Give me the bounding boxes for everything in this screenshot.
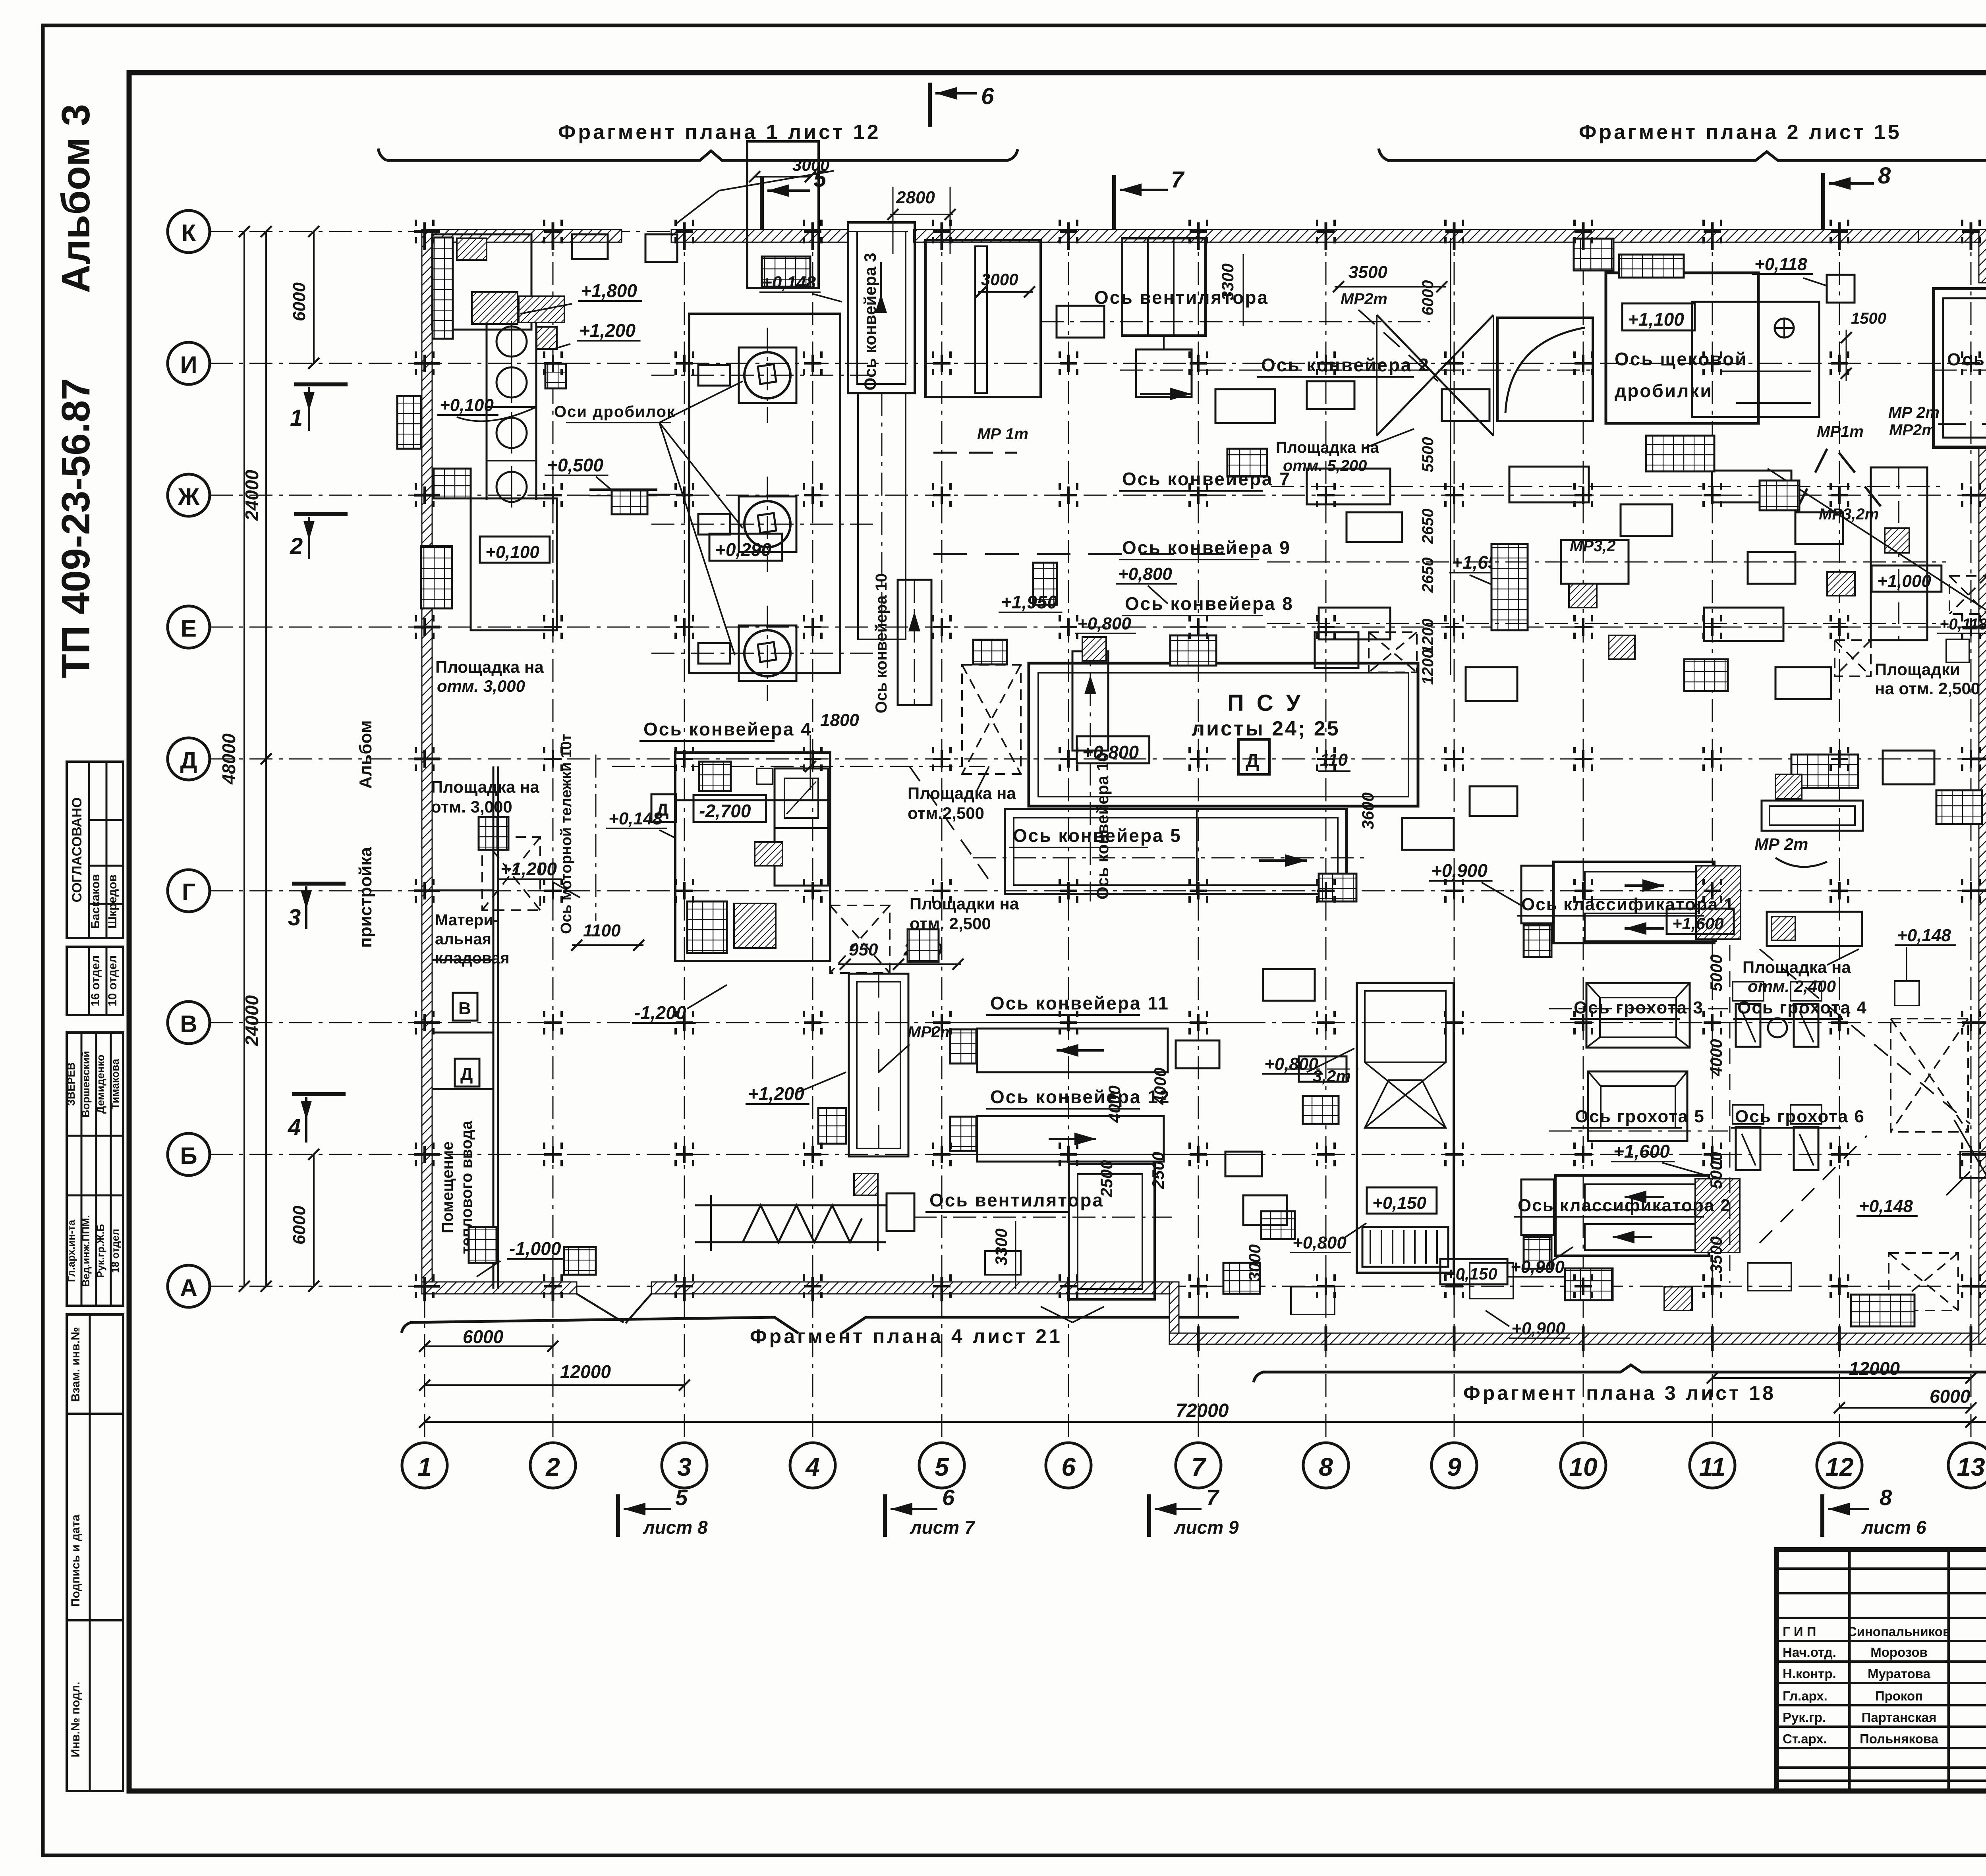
hatched pad (1569, 584, 1597, 608)
axis Е (210, 627, 1986, 628)
axis bubble И (168, 342, 210, 384)
column marks (416, 220, 433, 243)
svg-text:24000: 24000 (241, 995, 262, 1046)
bottom wall left part (422, 1282, 577, 1294)
svg-text:+1,200: +1,200 (748, 1083, 804, 1104)
svg-text:Рук.гр.: Рук.гр. (1783, 1710, 1826, 1725)
svg-text:Рук.гр.Ж.Б: Рук.гр.Ж.Б (95, 1224, 106, 1278)
col stub right Г (1971, 890, 1986, 892)
svg-text:Площадка на: Площадка на (908, 784, 1016, 803)
axis Д (210, 759, 1986, 760)
svg-text:3: 3 (677, 1453, 692, 1481)
col stub top 9 (1453, 222, 1456, 250)
svg-text:Оси дробилок: Оси дробилок (554, 403, 676, 421)
drum (496, 418, 527, 448)
right wall upper stub (1979, 230, 1986, 283)
svg-text:4: 4 (805, 1453, 820, 1481)
elevation mark (1667, 909, 1734, 934)
svg-text:+0,900: +0,900 (1511, 1257, 1565, 1277)
svg-text:Н.контр.: Н.контр. (1783, 1666, 1836, 1681)
svg-text:Партанская: Партанская (1862, 1710, 1937, 1725)
svg-text:6000: 6000 (290, 1206, 309, 1245)
col stub top 11 (1711, 222, 1714, 250)
axis bubble Г (168, 870, 210, 912)
svg-text:+0,148: +0,148 (609, 809, 663, 828)
svg-text:Площадка на: Площадка на (431, 778, 539, 796)
stair grid (421, 546, 452, 608)
svg-text:лист 6: лист 6 (1861, 1517, 1926, 1538)
hatched pad (1885, 528, 1909, 553)
elevation mark (1872, 566, 1942, 592)
svg-text:5: 5 (675, 1485, 688, 1510)
machine (1319, 608, 1390, 639)
col stub top 8 (1325, 222, 1327, 250)
big unit right of conveyor2 (1497, 318, 1593, 421)
svg-text:МР1т: МР1т (1817, 423, 1864, 440)
axis bubble 12 (1817, 1443, 1862, 1488)
crusher rotor (744, 630, 790, 676)
svg-text:дробилки: дробилки (1615, 380, 1713, 401)
svg-text:2500: 2500 (1149, 1152, 1167, 1189)
svg-text:Гл.арх.: Гл.арх. (1783, 1689, 1828, 1703)
svg-text:Ось грохота 6: Ось грохота 6 (1735, 1107, 1865, 1126)
bottom marker 8 лист 6 (1820, 1494, 1824, 1537)
svg-text:7: 7 (1171, 167, 1185, 193)
col stub top 5 (941, 222, 943, 250)
svg-text:+0,148: +0,148 (1859, 1197, 1913, 1216)
stair grid (612, 490, 647, 514)
svg-text:Фрагмент плана 4 лист 21: Фрагмент плана 4 лист 21 (750, 1325, 1063, 1347)
svg-text:Ось классификатора 2: Ось классификатора 2 (1518, 1196, 1731, 1215)
left wall (422, 230, 432, 1291)
svg-text:Фрагмент плана 2 лист 15: Фрагмент плана 2 лист 15 (1579, 121, 1902, 144)
svg-text:+0,150: +0,150 (1372, 1193, 1426, 1213)
svg-text:Ось конвейера 4: Ось конвейера 4 (643, 719, 812, 739)
svg-text:-1,200: -1,200 (634, 1002, 686, 1023)
svg-text:Е: Е (181, 615, 197, 642)
platform with X (1369, 632, 1417, 672)
elevation mark (480, 537, 550, 563)
svg-text:12000: 12000 (560, 1361, 611, 1382)
axis bubble 10 (1561, 1443, 1606, 1488)
top wall (423, 230, 622, 242)
long dashed handrail row Ж (933, 553, 1243, 555)
axis 7 (1198, 222, 1199, 1443)
col stub bottom 4 (811, 1277, 814, 1301)
грохот 6 (две секции) (1736, 1127, 1760, 1170)
col stub bottom 2 (552, 1277, 554, 1301)
platform with X (962, 665, 1021, 774)
stair grid (1574, 239, 1613, 270)
col stub top 7 (1197, 222, 1200, 250)
svg-text:4: 4 (288, 1114, 301, 1140)
stair grid (1227, 449, 1267, 477)
corner room (432, 234, 531, 330)
stair grid (950, 1029, 976, 1063)
right wall below gallery (1979, 447, 1986, 1344)
svg-text:кладовая: кладовая (435, 950, 510, 967)
hatched pad (1082, 637, 1106, 661)
hatched pad (734, 903, 776, 948)
svg-text:Фрагмент плана 3 лист 18: Фрагмент плана 3 лист 18 (1463, 1382, 1776, 1404)
axis И (210, 363, 1986, 364)
elevation mark (1440, 1259, 1507, 1284)
дашед диагонали (трассы) (1760, 949, 1970, 1124)
svg-text:Ось конвейера 11: Ось конвейера 11 (990, 993, 1169, 1013)
stair grid (397, 396, 421, 449)
svg-text:4000: 4000 (1707, 1039, 1725, 1076)
svg-text:Альбом: Альбом (356, 720, 375, 789)
svg-text:2: 2 (290, 533, 303, 559)
svg-text:МР2т: МР2т (908, 1023, 954, 1041)
Д small box at pump room (651, 794, 676, 822)
conveyor 3 lower run (858, 393, 906, 639)
svg-text:2650: 2650 (1419, 558, 1437, 593)
svg-text:ТП 409-23-56.87: ТП 409-23-56.87 (54, 378, 98, 678)
svg-text:3600: 3600 (1358, 792, 1377, 829)
svg-text:Помещение: Помещение (439, 1141, 456, 1233)
section marker 3 (left side) (292, 882, 346, 886)
svg-text:+0,148: +0,148 (762, 273, 816, 292)
section marker 8 (top) (1821, 173, 1825, 232)
stair grid (1851, 1295, 1915, 1326)
col stub bottom 5 (941, 1277, 943, 1301)
svg-text:+1,800: +1,800 (581, 280, 637, 301)
svg-text:1500: 1500 (1851, 310, 1886, 327)
svg-text:Ось конвейера 5: Ось конвейера 5 (1013, 825, 1182, 846)
svg-text:МР 2т: МР 2т (1754, 835, 1808, 853)
machine (1442, 389, 1489, 421)
svg-text:листы 24; 25: листы 24; 25 (1192, 717, 1340, 740)
axis К (210, 231, 1986, 232)
axis 1 (424, 222, 425, 1443)
stair grid (699, 762, 731, 791)
platform with X (1891, 1019, 1968, 1132)
stair grid (1319, 874, 1356, 901)
svg-text:Вед.инж.ППМ.: Вед.инж.ППМ. (80, 1215, 92, 1287)
machine (1347, 512, 1402, 542)
svg-text:+1,200: +1,200 (500, 859, 557, 879)
svg-text:пристройка: пристройка (356, 847, 375, 948)
svg-text:7: 7 (1206, 1485, 1220, 1510)
col stub left А (414, 1285, 440, 1288)
stair grid (1261, 1211, 1295, 1239)
МР 2т правая платформа (1762, 801, 1863, 831)
bottom wall right part (1169, 1333, 1986, 1344)
margin table подписи (67, 1033, 123, 1306)
svg-text:+1,000: +1,000 (1877, 571, 1931, 591)
margin strip Подпись и дата (67, 1414, 123, 1620)
svg-text:4000: 4000 (1151, 1067, 1169, 1105)
грохот 3 (1586, 983, 1690, 1048)
stair grid (1646, 436, 1714, 471)
hatched pad (1772, 917, 1795, 940)
svg-text:отм. 5,200: отм. 5,200 (1283, 457, 1367, 475)
elevation mark (1622, 303, 1695, 330)
svg-text:72000: 72000 (1176, 1400, 1229, 1421)
svg-text:МР 2т: МР 2т (1888, 404, 1940, 421)
svg-text:Синопальников: Синопальников (1847, 1624, 1951, 1639)
machine (1561, 540, 1629, 584)
svg-text:1200: 1200 (1419, 650, 1437, 685)
машины на оси Б правее (1470, 1263, 1513, 1299)
svg-text:+1,950: +1,950 (1001, 592, 1057, 612)
col stub top 13 (1970, 222, 1972, 250)
col stub right А (1971, 1285, 1986, 1288)
axis bubble В (168, 1002, 210, 1044)
ПСУ unit (1029, 663, 1418, 806)
svg-text:1200: 1200 (1419, 619, 1437, 654)
stair grid (818, 1108, 846, 1144)
svg-text:Морозов: Морозов (1870, 1645, 1928, 1660)
axis 8 (1325, 222, 1327, 1443)
axis 4 (812, 222, 813, 1443)
machine (1509, 467, 1589, 502)
col stub bottom 6 (1067, 1277, 1070, 1301)
stair grid (1791, 755, 1858, 788)
svg-text:2500: 2500 (1097, 1160, 1116, 1197)
svg-text:Д: Д (180, 747, 197, 774)
crusher rotor (744, 352, 790, 398)
drum (496, 326, 527, 357)
svg-text:8: 8 (1878, 163, 1891, 189)
svg-text:альная: альная (435, 930, 491, 948)
классификатор 2 (1555, 1175, 1709, 1256)
stair grid (545, 364, 566, 388)
svg-text:Ось вентилятора: Ось вентилятора (1094, 287, 1269, 308)
svg-text:10: 10 (1569, 1453, 1597, 1481)
margin strip Инв.№ подл (67, 1620, 123, 1791)
svg-text:МР2т: МР2т (1341, 290, 1387, 308)
hatched pad (755, 842, 782, 866)
col stub right Б (1971, 1153, 1986, 1156)
svg-text:МР 1т: МР 1т (977, 425, 1028, 443)
svg-text:Площадка на: Площадка на (435, 658, 544, 676)
svg-text:6: 6 (981, 83, 994, 109)
svg-text:+0,900: +0,900 (1431, 860, 1488, 881)
hatched pad (519, 296, 564, 322)
crusher frame (739, 625, 796, 681)
axis bubble К (168, 210, 210, 253)
machine (1883, 751, 1934, 784)
bottom marker 6 лист 7 (883, 1494, 887, 1537)
margin table отделы (67, 947, 123, 1015)
machine (1621, 504, 1672, 536)
col stub top 4 (811, 222, 814, 250)
machine (1307, 469, 1390, 504)
hatched pad (457, 238, 487, 260)
грохот 4 (две секции) (1736, 1004, 1760, 1047)
machine (1263, 969, 1315, 1001)
conveyor 1 gallery (right) (1934, 289, 1986, 447)
platform with X (1835, 640, 1871, 676)
svg-text:Прокоп: Прокоп (1875, 1689, 1923, 1703)
svg-text:3300: 3300 (1218, 263, 1237, 300)
section marker 5 (top) (760, 177, 764, 232)
svg-text:6000: 6000 (1419, 280, 1437, 316)
machine (1402, 818, 1454, 850)
svg-text:3300: 3300 (992, 1228, 1010, 1265)
svg-text:+0,800: +0,800 (1077, 614, 1131, 633)
hatched pad (1775, 774, 1802, 799)
axis bubble 9 (1432, 1443, 1477, 1488)
col stub bottom 8 (1325, 1326, 1327, 1351)
svg-text:лист 8: лист 8 (643, 1517, 708, 1538)
elevation mark (709, 534, 782, 561)
дашед axis through gallery lower (1938, 423, 1986, 425)
бункер bottom grill (1362, 1227, 1448, 1267)
vent chamber right of conveyor3 (925, 240, 1041, 397)
stair grid (1303, 1096, 1339, 1124)
elevation mark (694, 795, 766, 822)
В box (453, 993, 477, 1021)
machine (1795, 512, 1843, 544)
svg-text:Шкредов: Шкредов (106, 874, 119, 928)
col stub right Ж (1971, 494, 1986, 497)
svg-text:П С У: П С У (1227, 690, 1304, 716)
svg-text:6000: 6000 (290, 282, 309, 321)
axis bubble 3 (662, 1443, 707, 1488)
bottom dim 9000 axes13-14 (1971, 1421, 1986, 1423)
col stub left Г (414, 890, 440, 892)
col stub left Е (414, 626, 440, 629)
stair grid (1936, 790, 1982, 824)
svg-text:10 отдел: 10 отдел (106, 955, 119, 1006)
machine (1775, 667, 1831, 699)
col stub bottom 11 (1711, 1326, 1714, 1351)
svg-text:Польнякова: Польнякова (1860, 1731, 1939, 1746)
axis конвейер 1 (1934, 370, 1986, 371)
svg-text:1: 1 (417, 1453, 432, 1481)
stair grid (1565, 1268, 1613, 1300)
svg-text:+0,800: +0,800 (1292, 1233, 1347, 1253)
annex walls (493, 766, 495, 1289)
conveyor 10 head (1072, 651, 1108, 751)
machine (1215, 389, 1275, 423)
svg-text:МР3,2: МР3,2 (1570, 537, 1616, 555)
crusher rotor (744, 501, 790, 547)
svg-text:5000: 5000 (1707, 954, 1725, 991)
platform with X (482, 837, 540, 910)
room below drums (471, 498, 557, 630)
machine (1176, 1040, 1219, 1068)
machine (1704, 608, 1783, 641)
svg-text:1100: 1100 (583, 921, 621, 940)
crusher frame (739, 347, 796, 403)
svg-text:СОГЛАСОВАНО: СОГЛАСОВАНО (70, 797, 85, 903)
col stub top 2 (552, 222, 554, 250)
svg-text:Ось конвейера 8: Ось конвейера 8 (1125, 593, 1294, 614)
fixture (645, 234, 677, 262)
svg-text:А: А (180, 1274, 197, 1301)
svg-text:11: 11 (1699, 1453, 1725, 1481)
axis bubble 13 (1948, 1443, 1986, 1488)
svg-text:Подпись и дата: Подпись и дата (69, 1514, 82, 1607)
stair grid (973, 640, 1007, 664)
col stub left К (414, 230, 440, 233)
stair grid (433, 469, 471, 498)
svg-text:1800: 1800 (820, 710, 859, 730)
bottom dim 12000 axes11-13 (1712, 1377, 1971, 1379)
svg-text:7: 7 (1191, 1453, 1207, 1481)
svg-text:Фрагмент плана 1 лист 12: Фрагмент плана 1 лист 12 (558, 121, 881, 144)
svg-text:Ось щековой: Ось щековой (1615, 349, 1747, 369)
conveyor 4 drive (675, 753, 830, 800)
svg-text:+0,800: +0,800 (1118, 564, 1172, 584)
pump room (насосная) (675, 753, 830, 961)
svg-text:В: В (180, 1011, 197, 1037)
stair grid (687, 901, 727, 953)
stair grid (469, 1227, 496, 1263)
axis 13 (1971, 222, 1972, 1443)
svg-text:Площадки на: Площадки на (910, 894, 1019, 913)
svg-text:Нач.отд.: Нач.отд. (1783, 1645, 1836, 1660)
svg-text:6000: 6000 (1930, 1386, 1971, 1407)
stair grid (1524, 1237, 1551, 1269)
svg-text:Г И П: Г И П (1783, 1624, 1816, 1639)
svg-text:Г: Г (182, 879, 195, 905)
svg-text:6: 6 (942, 1485, 955, 1510)
axis bubble Ж (168, 474, 210, 516)
svg-text:Площадки: Площадки (1875, 660, 1960, 679)
svg-text:Ось конвейера 9: Ось конвейера 9 (1122, 537, 1291, 558)
axis bubble Е (168, 606, 210, 648)
conveyor 5 frame (1005, 809, 1347, 894)
svg-text:6: 6 (1061, 1453, 1076, 1481)
vertical conveyor МР2т (лев) (849, 974, 908, 1156)
hatched pad (1696, 866, 1741, 939)
hatched pad (1827, 572, 1855, 596)
svg-text:3: 3 (288, 905, 301, 930)
col stub left Д (414, 758, 440, 760)
section marker 7 (top) (1112, 175, 1116, 234)
door swing at bottom opening (577, 1294, 624, 1322)
svg-text:Б: Б (180, 1143, 197, 1169)
axis bubble 4 (790, 1443, 835, 1488)
svg-text:+0,290: +0,290 (715, 539, 771, 560)
title block (1777, 1550, 1986, 1791)
elevation mark (1367, 1187, 1437, 1214)
Д box (1238, 739, 1269, 774)
bottom dim 6000 axes1-2 (425, 1345, 553, 1347)
svg-text:4000: 4000 (1105, 1085, 1124, 1123)
axis bubble 2 (530, 1443, 576, 1488)
axis bubble 6 (1046, 1443, 1091, 1488)
svg-text:Ось конвейера 10: Ось конвейера 10 (873, 573, 890, 714)
svg-text:Ж: Ж (178, 483, 200, 510)
vent unit (1069, 1164, 1155, 1299)
svg-text:МР2т: МР2т (1889, 421, 1936, 439)
elevation mark (1077, 736, 1149, 763)
bottom marker 5 лист 8 (616, 1494, 620, 1537)
svg-text:+1,100: +1,100 (1628, 309, 1684, 330)
svg-text:+0,900: +0,900 (1511, 1319, 1565, 1338)
col stub left В (414, 1021, 440, 1024)
svg-text:отм. 3,000: отм. 3,000 (437, 677, 525, 695)
Д box annex (455, 1059, 479, 1087)
bottom dim 6000 axes12-13 (1839, 1407, 1971, 1409)
axis bubble Б (168, 1133, 210, 1175)
svg-text:лист 7: лист 7 (910, 1517, 976, 1538)
platform with X (1949, 576, 1986, 614)
axis bubble 7 (1176, 1443, 1221, 1488)
svg-text:Взам. инв.№: Взам. инв.№ (69, 1327, 82, 1402)
svg-text:+0,500: +0,500 (547, 455, 603, 475)
stair grid (1491, 544, 1528, 630)
stair grid (1170, 635, 1216, 666)
stair grid (1760, 481, 1799, 510)
svg-text:Ось конвейера 3: Ось конвейера 3 (861, 253, 879, 391)
